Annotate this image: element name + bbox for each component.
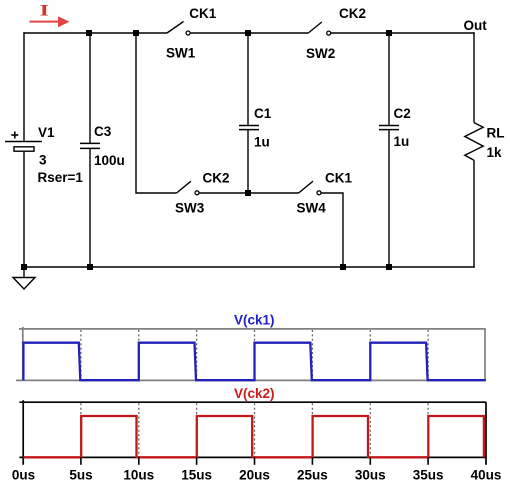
svg-text:15us: 15us xyxy=(181,468,212,483)
svg-text:0us: 0us xyxy=(12,468,35,483)
switch SW2 xyxy=(308,22,330,35)
svg-text:C3: C3 xyxy=(94,124,112,139)
capacitor C1 xyxy=(239,126,259,130)
svg-text:20us: 20us xyxy=(239,468,270,483)
wire RL bottom lead xyxy=(473,160,475,268)
voltage source V1 xyxy=(5,132,42,152)
trace V(ck2) xyxy=(23,416,484,457)
svg-text:Rser=1: Rser=1 xyxy=(38,170,84,185)
plot pane 1 frame xyxy=(16,327,486,381)
wire C2 top lead xyxy=(388,33,390,125)
capacitor C3 xyxy=(80,143,100,148)
wire C3 top lead xyxy=(89,33,91,143)
time axis labels xyxy=(12,468,502,483)
junction middle at C1 bottom xyxy=(245,190,251,196)
trace V(ck1) xyxy=(23,343,485,381)
svg-text:100u: 100u xyxy=(94,153,125,168)
svg-text:V1: V1 xyxy=(38,125,55,140)
junction bottom at C3 xyxy=(87,264,93,270)
svg-text:1u: 1u xyxy=(394,134,410,149)
svg-text:35us: 35us xyxy=(413,468,444,483)
wire top rail right xyxy=(331,32,475,34)
svg-text:25us: 25us xyxy=(297,468,328,483)
svg-text:RL: RL xyxy=(487,125,505,140)
current arrow I xyxy=(30,16,70,27)
svg-text:Out: Out xyxy=(464,18,488,33)
gridlines pane 2 xyxy=(81,403,428,456)
svg-text:SW2: SW2 xyxy=(306,46,335,61)
svg-text:1u: 1u xyxy=(254,134,270,149)
wire C1 bottom lead xyxy=(247,130,249,193)
svg-text:40us: 40us xyxy=(471,468,502,483)
wire SW3 to C1 bottom node xyxy=(199,192,248,194)
svg-text:SW1: SW1 xyxy=(166,46,196,61)
svg-text:V(ck1): V(ck1) xyxy=(234,313,275,328)
svg-text:V(ck2): V(ck2) xyxy=(234,386,275,401)
wire V1 top lead xyxy=(23,32,25,141)
svg-text:CK2: CK2 xyxy=(339,6,366,21)
wire bottom rail xyxy=(23,266,474,268)
wire branch down to SW3 xyxy=(136,33,177,193)
svg-text:3: 3 xyxy=(39,152,47,167)
wire RL top lead xyxy=(473,32,475,122)
wire SW4 right lead down xyxy=(321,193,343,267)
svg-text:SW4: SW4 xyxy=(297,200,327,215)
svg-text:C2: C2 xyxy=(394,106,411,121)
plot pane 2 frame xyxy=(19,400,486,465)
junction bottom at SW4 branch xyxy=(340,264,346,270)
svg-text:I: I xyxy=(40,2,49,19)
gridlines pane 1 xyxy=(81,330,428,380)
wire C3 bottom lead xyxy=(89,149,91,267)
wire C1 top lead xyxy=(247,33,249,125)
time axis ticks xyxy=(81,457,428,464)
svg-text:CK2: CK2 xyxy=(203,170,230,185)
switch SW1 xyxy=(167,22,190,36)
wire top rail middle xyxy=(191,32,309,34)
wire ground stub xyxy=(23,267,25,278)
svg-text:1k: 1k xyxy=(487,145,503,160)
capacitor C2 xyxy=(379,126,399,130)
svg-text:SW3: SW3 xyxy=(175,200,205,215)
junction top at branch xyxy=(133,30,139,36)
ground xyxy=(13,278,35,290)
resistor RL xyxy=(465,123,483,161)
wire V1 bottom lead xyxy=(23,151,25,267)
junction top at C1 xyxy=(245,30,251,36)
svg-text:CK1: CK1 xyxy=(189,6,216,21)
wire top rail left xyxy=(23,32,167,34)
svg-text:CK1: CK1 xyxy=(325,170,352,185)
wire C1 bottom node to SW4 xyxy=(248,192,299,194)
junction bottom at V1 xyxy=(21,264,27,270)
switch SW4 xyxy=(299,181,321,195)
svg-text:30us: 30us xyxy=(355,468,386,483)
junction top at C2 xyxy=(386,30,392,36)
junction bottom at C2 xyxy=(386,264,392,270)
wire C2 bottom lead xyxy=(388,130,390,267)
junction top at C3 xyxy=(86,30,92,36)
svg-text:5us: 5us xyxy=(69,468,92,483)
switch SW3 xyxy=(177,181,199,195)
svg-text:C1: C1 xyxy=(254,106,272,121)
svg-text:10us: 10us xyxy=(123,468,154,483)
